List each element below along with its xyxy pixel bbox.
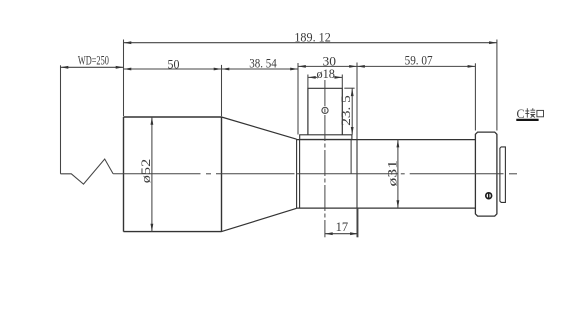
extension for 17 right side — [357, 208, 359, 237]
svg-text:ø31: ø31 — [385, 160, 399, 187]
glyph 口 — [537, 110, 544, 116]
taper end cap (double edge) — [297, 139, 300, 208]
dimension Ø52 line (vertical) — [151, 117, 153, 232]
conical taper section — [222, 117, 297, 232]
label C interface (C接口) — [516, 106, 543, 121]
extension line at body front x=123.5 — [123, 40, 125, 117]
dimension WD=250 line — [61, 66, 124, 68]
extension line at x=221.5 — [221, 65, 223, 116]
object plane extension line (left) — [60, 65, 62, 174]
dimension 189.12 line — [124, 42, 497, 44]
extension line at x=496.9 — [496, 40, 498, 131]
dimension 38.54 line — [222, 68, 299, 70]
glyph 接 — [525, 108, 535, 118]
svg-text:WD=250: WD=250 — [78, 54, 109, 68]
illumination port barrel (Ø18) — [308, 88, 342, 135]
svg-text:ø52: ø52 — [139, 159, 153, 184]
C-mount flange block (chamfered corners) — [475, 132, 497, 216]
tube body (Ø31) — [297, 140, 476, 209]
lens main barrel (Ø52 cylinder) — [124, 117, 222, 232]
dimension 23.5 line (vertical) with top tick — [344, 88, 354, 135]
svg-text:50: 50 — [168, 57, 180, 71]
extension line at x=357 (above and below tube) — [356, 63, 358, 238]
set screw on flange — [486, 193, 492, 199]
tube joint edge at port section — [356, 140, 358, 209]
dimension 30 line — [298, 65, 357, 67]
svg-text:17: 17 — [336, 220, 349, 234]
port vertical centerline (dash-dot) — [324, 80, 326, 237]
zigzag break line on optical axis — [61, 159, 114, 184]
svg-text:23. 5: 23. 5 — [339, 95, 353, 126]
svg-text:59. 07: 59. 07 — [405, 54, 433, 68]
svg-text:38. 54: 38. 54 — [249, 57, 277, 71]
underline — [516, 119, 538, 121]
optical axis centerline (horizontal, dash-dot) — [113, 173, 517, 175]
extension line at x=475.4 — [474, 63, 476, 130]
svg-text:ø18: ø18 — [316, 67, 335, 81]
dimension 17 line — [325, 233, 358, 235]
dimension Ø31 line (vertical) — [397, 140, 399, 209]
svg-text:189. 12: 189. 12 — [294, 30, 331, 44]
C-mount thread ring — [500, 147, 506, 203]
dimension 50 line — [124, 68, 222, 70]
extension line at x=296.6 — [297, 63, 299, 135]
illumination port flange plate — [300, 135, 352, 140]
port screw hole circle — [322, 107, 328, 113]
internal half edge below port — [350, 140, 352, 174]
dimension 59.07 line — [357, 65, 475, 67]
dimension Ø18 line and extensions — [308, 75, 342, 89]
